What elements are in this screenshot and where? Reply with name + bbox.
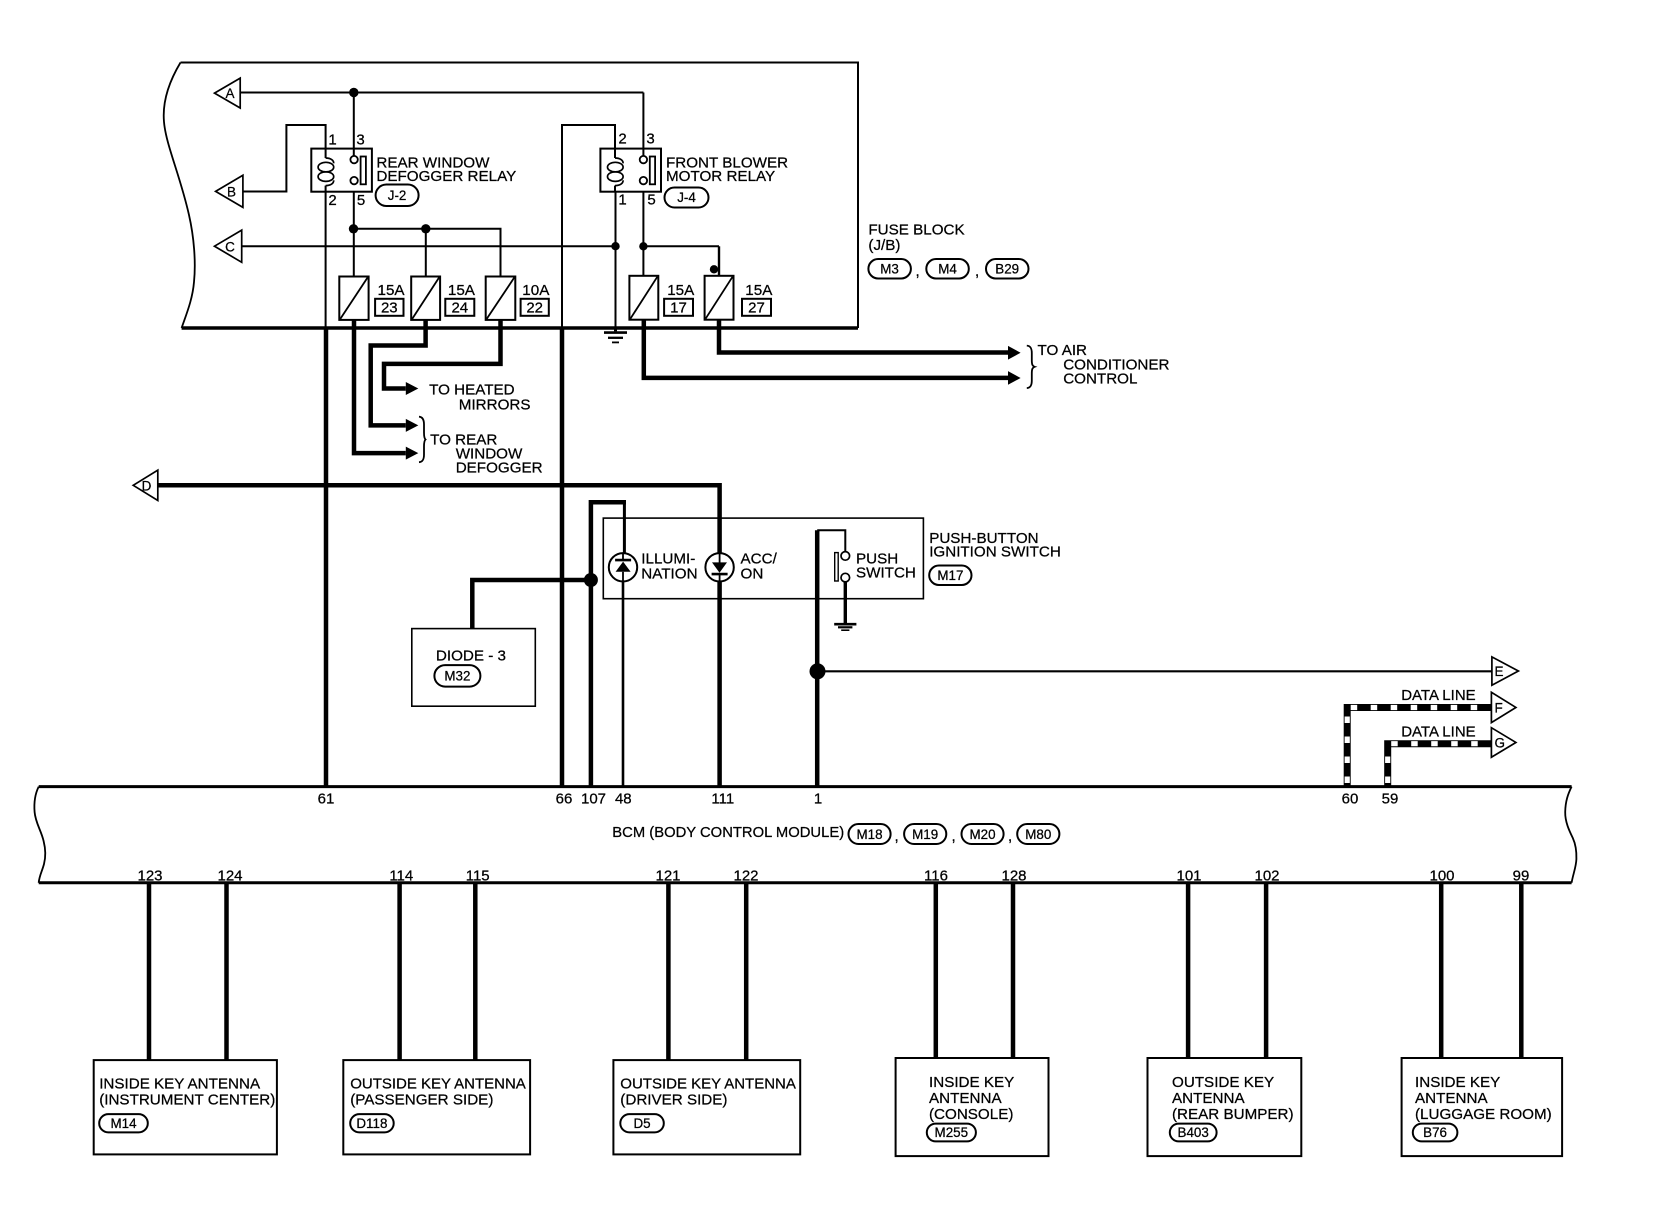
svg-text:1: 1 — [814, 791, 822, 808]
svg-text:J-2: J-2 — [388, 188, 407, 203]
svg-text:C: C — [225, 239, 235, 254]
svg-text:48: 48 — [615, 791, 632, 808]
svg-text:MIRRORS: MIRRORS — [459, 397, 531, 414]
svg-text:15A: 15A — [378, 282, 406, 299]
svg-text:3: 3 — [646, 131, 654, 148]
svg-text:22: 22 — [526, 300, 543, 317]
svg-text:M19: M19 — [912, 827, 938, 842]
svg-text:1: 1 — [328, 132, 336, 149]
svg-text:128: 128 — [1001, 868, 1026, 885]
svg-text:M80: M80 — [1025, 827, 1051, 842]
svg-text:107: 107 — [581, 791, 606, 808]
svg-text:ON: ON — [741, 566, 764, 583]
svg-text:G: G — [1495, 735, 1506, 750]
svg-text:101: 101 — [1176, 868, 1201, 885]
svg-text:M17: M17 — [937, 568, 963, 583]
svg-text:,: , — [952, 828, 956, 845]
svg-text:M3: M3 — [880, 262, 899, 277]
svg-text:B403: B403 — [1178, 1125, 1209, 1140]
svg-text:100: 100 — [1429, 868, 1454, 885]
svg-text:M255: M255 — [935, 1125, 969, 1140]
svg-text:17: 17 — [670, 300, 687, 317]
svg-text:D5: D5 — [633, 1116, 650, 1131]
svg-text:NATION: NATION — [641, 566, 697, 583]
svg-text:(DRIVER SIDE): (DRIVER SIDE) — [620, 1092, 727, 1109]
svg-text:ANTENNA: ANTENNA — [1172, 1090, 1245, 1107]
svg-text:3: 3 — [356, 132, 364, 149]
svg-text:(J/B): (J/B) — [868, 237, 900, 254]
svg-text:23: 23 — [381, 300, 398, 317]
svg-text:M32: M32 — [444, 669, 470, 684]
svg-text:(LUGGAGE ROOM): (LUGGAGE ROOM) — [1415, 1106, 1552, 1123]
svg-text:E: E — [1495, 664, 1504, 679]
svg-text:B: B — [227, 185, 236, 200]
svg-text:5: 5 — [647, 192, 655, 209]
svg-text:DIODE - 3: DIODE - 3 — [436, 648, 506, 665]
svg-text:(CONSOLE): (CONSOLE) — [929, 1106, 1013, 1123]
svg-text:15A: 15A — [667, 282, 695, 299]
svg-text:5: 5 — [357, 192, 365, 209]
svg-text:INSIDE KEY: INSIDE KEY — [1415, 1074, 1500, 1091]
svg-text:M4: M4 — [938, 262, 957, 277]
svg-text:M18: M18 — [856, 827, 882, 842]
svg-text:B29: B29 — [995, 262, 1019, 277]
svg-text:99: 99 — [1513, 868, 1530, 885]
svg-text:122: 122 — [733, 868, 758, 885]
svg-text:IGNITION SWITCH: IGNITION SWITCH — [929, 544, 1061, 561]
svg-text:66: 66 — [556, 791, 573, 808]
svg-text:114: 114 — [389, 868, 413, 885]
svg-text:ANTENNA: ANTENNA — [1415, 1090, 1488, 1107]
svg-text:DATA LINE: DATA LINE — [1401, 687, 1475, 704]
svg-text:CONTROL: CONTROL — [1063, 371, 1137, 388]
svg-text:10A: 10A — [522, 282, 550, 299]
svg-text:OUTSIDE KEY ANTENNA: OUTSIDE KEY ANTENNA — [350, 1076, 526, 1093]
svg-text:OUTSIDE KEY ANTENNA: OUTSIDE KEY ANTENNA — [620, 1076, 796, 1093]
svg-text:INSIDE KEY: INSIDE KEY — [929, 1074, 1014, 1091]
svg-text:15A: 15A — [448, 282, 476, 299]
svg-text:15A: 15A — [745, 282, 773, 299]
svg-text:FUSE BLOCK: FUSE BLOCK — [868, 222, 964, 239]
svg-text:(PASSENGER SIDE): (PASSENGER SIDE) — [350, 1092, 493, 1109]
svg-text:INSIDE KEY ANTENNA: INSIDE KEY ANTENNA — [99, 1076, 261, 1093]
svg-text:BCM (BODY CONTROL MODULE): BCM (BODY CONTROL MODULE) — [612, 825, 844, 841]
svg-text:(INSTRUMENT CENTER): (INSTRUMENT CENTER) — [99, 1092, 275, 1109]
svg-text:2: 2 — [618, 131, 626, 148]
svg-text:2: 2 — [328, 192, 336, 209]
svg-text:DATA LINE: DATA LINE — [1401, 723, 1475, 740]
svg-text:111: 111 — [711, 791, 734, 808]
svg-text:,: , — [1008, 828, 1012, 845]
svg-text:(REAR BUMPER): (REAR BUMPER) — [1172, 1106, 1294, 1123]
svg-text:MOTOR RELAY: MOTOR RELAY — [666, 168, 775, 185]
svg-text:OUTSIDE KEY: OUTSIDE KEY — [1172, 1074, 1274, 1091]
svg-text:,: , — [916, 263, 920, 280]
svg-text:1: 1 — [618, 192, 626, 209]
svg-text:115: 115 — [466, 868, 490, 885]
svg-text:DEFOGGER RELAY: DEFOGGER RELAY — [376, 168, 516, 185]
svg-text:124: 124 — [217, 868, 242, 885]
svg-text:,: , — [975, 263, 979, 280]
svg-text:ANTENNA: ANTENNA — [929, 1090, 1002, 1107]
svg-text:F: F — [1495, 700, 1503, 715]
svg-text:,: , — [895, 828, 899, 845]
svg-text:A: A — [225, 86, 234, 101]
svg-text:M14: M14 — [110, 1116, 137, 1131]
svg-text:M20: M20 — [969, 827, 995, 842]
svg-text:SWITCH: SWITCH — [856, 565, 916, 582]
svg-text:61: 61 — [318, 791, 335, 808]
svg-text:D118: D118 — [356, 1116, 387, 1131]
svg-text:D: D — [142, 478, 152, 493]
svg-text:59: 59 — [1382, 791, 1399, 808]
svg-text:J-4: J-4 — [677, 190, 696, 205]
svg-text:60: 60 — [1342, 791, 1359, 808]
svg-text:102: 102 — [1254, 868, 1279, 885]
svg-text:24: 24 — [451, 300, 468, 317]
svg-text:B76: B76 — [1423, 1125, 1447, 1140]
svg-text:123: 123 — [137, 868, 162, 885]
svg-text:121: 121 — [655, 868, 680, 885]
svg-text:DEFOGGER: DEFOGGER — [456, 460, 543, 477]
svg-text:116: 116 — [924, 868, 948, 885]
svg-text:27: 27 — [748, 300, 765, 317]
